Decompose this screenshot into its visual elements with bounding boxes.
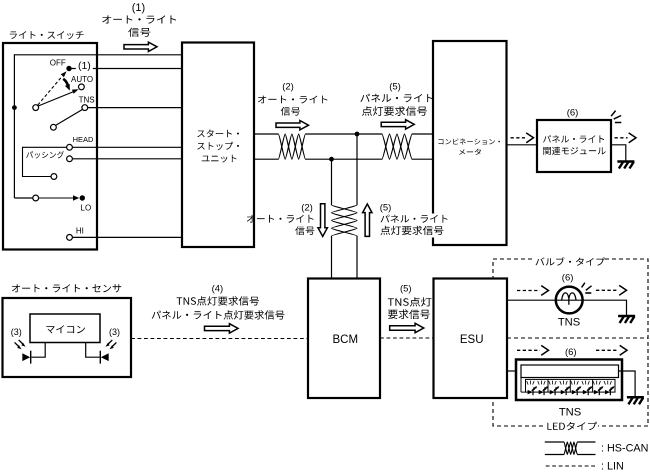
svg-text:(6): (6) — [562, 272, 574, 283]
label: light switch (ライト・スイッチ) — [10, 31, 84, 39]
svg-text:(3): (3) — [11, 327, 22, 337]
light rays into right photodiode — [105, 340, 116, 349]
node: switch common contact — [33, 105, 39, 111]
svg-text:(3): (3) — [109, 327, 120, 337]
node: junction on upper CAN line — [355, 132, 360, 137]
node: LO arm pivot — [33, 195, 39, 201]
svg-text:(5): (5) — [389, 81, 401, 92]
wire: dashed arrow into bulb — [517, 286, 549, 296]
label: microcomputer text — [46, 325, 85, 333]
wire: common bus to LO — [14, 197, 32, 199]
light rays at bulb — [582, 283, 592, 293]
wire: bulb to ground — [582, 300, 626, 315]
photodiode right — [100, 351, 108, 364]
label: (4) TNS / panel light request signals — [152, 283, 285, 319]
node: arm contact below TNS — [51, 124, 57, 130]
svg-text:(2): (2) — [301, 203, 313, 214]
node: OFF contact (filled) — [66, 66, 71, 71]
label: (1) at OFF contact — [76, 60, 93, 72]
box: BCM — [308, 279, 380, 399]
wire: dashed arrow out of module — [615, 133, 637, 143]
label: LED type (LEDタイプ) — [546, 421, 598, 431]
wire: CAN drop line right (to BCM) — [356, 134, 358, 205]
svg-text:(5): (5) — [380, 203, 392, 214]
wire: dashed arrow meter to panel-light module — [511, 133, 534, 143]
wire: flash line to start-stop unit — [72, 158, 182, 160]
wire: meter to panel-light module illumination feed — [507, 144, 538, 146]
wire: module to ground — [611, 145, 626, 161]
label: (5) panel-light request up from BCM — [379, 203, 451, 238]
label: (5) TNS lighting request BCM to ESU — [388, 283, 432, 319]
arrow: auto-light signal direction — [124, 42, 157, 51]
ground: module — [617, 162, 634, 169]
svg-text:HEAD: HEAD — [73, 135, 94, 144]
label: (5) panel-light request to meter — [360, 81, 432, 116]
svg-text:TNS: TNS — [558, 317, 580, 329]
photodiode left — [22, 351, 30, 364]
label: passing (パッシング) — [26, 151, 64, 158]
svg-text:: LIN: : LIN — [601, 461, 624, 473]
ground: bulb — [618, 316, 635, 323]
arrow: (5) signal direction right — [381, 120, 414, 129]
box: start-stop unit (スタート・ストップ・ユニット) — [182, 43, 254, 248]
LEDs: 8 series diodes with emission marks — [527, 381, 615, 396]
arrow: (2) signal direction right — [276, 121, 309, 130]
node: TNS contact — [82, 105, 88, 111]
box: ESU — [434, 279, 508, 399]
wire: HI line to start-stop unit — [72, 236, 182, 238]
label: (2) auto-light signal to meter — [258, 81, 328, 115]
node: HI contact — [67, 235, 73, 241]
node: passing contact — [51, 174, 57, 180]
arrow: (5) direction right — [390, 323, 424, 332]
legend: LIN dashed symbol — [546, 465, 597, 467]
box: combination meter (コンビネーション・メータ) — [433, 41, 507, 245]
wire: switch common bus vertical — [13, 54, 15, 198]
label: combination meter text — [438, 138, 500, 155]
node: HEAD contact — [67, 144, 73, 150]
arrow: (4) direction right — [205, 324, 239, 333]
wire: LO arm with arrow — [39, 195, 80, 201]
box: TNS LED module — [516, 360, 622, 401]
label: (1) auto-light signal — [102, 2, 176, 37]
wire: HS-CAN twisted pair upper line — [254, 133, 278, 135]
wire: LIN dashed sensor to BCM — [131, 338, 308, 340]
box: auto light sensor — [3, 298, 132, 377]
wire: passing bracket — [23, 147, 67, 176]
ground: LED module — [627, 397, 644, 404]
box: light switch unit — [3, 43, 97, 250]
node: junction on common bus — [12, 105, 17, 110]
wire: microcomputer to left photodiode — [32, 343, 46, 358]
twisted pair section 1 — [278, 134, 305, 159]
dashed enclosure: bulb-type / LED-type lamp variants — [493, 259, 648, 426]
svg-text:BCM: BCM — [333, 334, 359, 346]
twisted pair section vertical — [332, 205, 358, 236]
svg-text:(6): (6) — [567, 107, 579, 118]
label: (2) auto-light signal down to BCM — [247, 203, 315, 235]
wire: HEAD line to start-stop unit — [72, 146, 182, 148]
box: panel light related module — [537, 120, 611, 172]
wire: dashed arrow out of bulb — [596, 285, 627, 295]
wire: microcomputer to right photodiode — [86, 343, 100, 358]
node: flash-to-pass contact — [67, 156, 73, 162]
wire: dashed arrow out of LED module — [596, 345, 627, 355]
wire: OFF position line to start-stop unit — [69, 68, 182, 70]
light rays at module — [611, 111, 621, 123]
svg-text:(5): (5) — [400, 283, 412, 294]
wire: ESU to LED module — [507, 370, 521, 372]
svg-text:(1): (1) — [132, 2, 145, 14]
svg-text:LO: LO — [81, 204, 92, 213]
svg-text:ESU: ESU — [460, 334, 484, 346]
node: AUTO contact — [79, 84, 85, 90]
arrow: (5) up — [363, 204, 372, 236]
box: microcomputer (マイコン) — [30, 314, 100, 343]
wire: dashed switch arm to OFF — [38, 71, 67, 105]
svg-text:AUTO: AUTO — [71, 75, 93, 84]
wire: dashed arrow into LED module — [517, 345, 549, 355]
svg-text:OFF: OFF — [50, 59, 66, 68]
arrow: (2) down — [318, 204, 327, 237]
wire: CAN drop line left (to BCM) — [331, 159, 333, 205]
label: panel light related module text — [543, 135, 606, 155]
wire: LIN dashed BCM to ESU — [380, 337, 434, 339]
light rays into left photodiode — [15, 340, 26, 349]
node: LO contact (filled) — [80, 195, 85, 200]
node: junction on lower CAN line — [329, 157, 334, 162]
wire: TNS line to start-stop unit — [88, 107, 182, 109]
wire: auto-light signal line to start-stop unit — [14, 54, 182, 56]
label: auto light sensor (オート・ライト・センサ) — [12, 284, 121, 292]
svg-text:: HS-CAN: : HS-CAN — [601, 442, 648, 454]
arrow: curved OFF-to-AUTO rotation — [63, 79, 70, 91]
lamp: TNS bulb — [556, 287, 583, 314]
svg-text:TNS: TNS — [79, 95, 95, 104]
wire: ESU to bulb — [507, 299, 557, 301]
legend: HS-CAN twisted pair symbol — [545, 441, 564, 443]
wire: LED module to ground — [619, 371, 636, 396]
svg-text:(1): (1) — [78, 60, 91, 72]
wire: LED ladder rails — [521, 378, 615, 393]
wire: HS-CAN twisted pair lower line — [254, 158, 278, 160]
svg-text:(2): (2) — [282, 81, 294, 92]
svg-text:(4): (4) — [212, 283, 224, 294]
svg-text:(6): (6) — [565, 347, 577, 358]
box: LED light guide bar — [521, 365, 619, 378]
label: bulb type (バルブ・タイプ) — [535, 255, 605, 266]
twisted pair section 2 — [382, 134, 412, 159]
wire: TNS-HEAD switch arm — [55, 109, 82, 125]
wire: switch arm from common to AUTO (arrow) — [39, 89, 79, 106]
svg-text:HI: HI — [76, 227, 84, 236]
svg-text:TNS: TNS — [559, 406, 581, 418]
label: start-stop unit text — [197, 130, 239, 163]
